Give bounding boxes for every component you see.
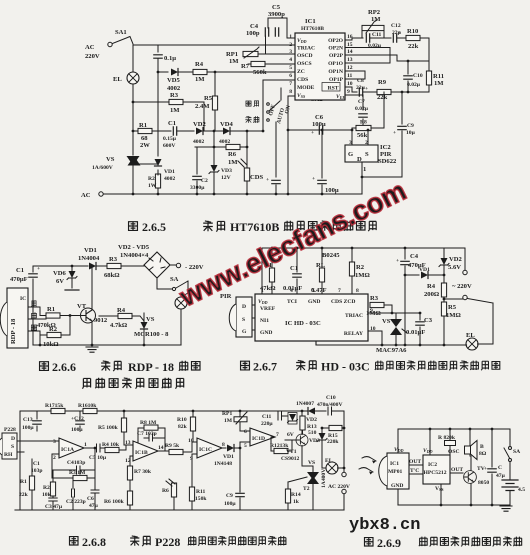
svg-text:8Ω: 8Ω	[479, 451, 487, 457]
wire VEE pin9	[345, 95, 363, 110]
wire pin11 stub	[345, 71, 365, 79]
svg-text:8050: 8050	[478, 480, 489, 486]
wire top rail 248	[262, 248, 465, 294]
svg-text:VD3: VD3	[221, 168, 232, 174]
resistor R5 100k	[98, 410, 133, 445]
svg-text:5: 5	[312, 288, 315, 294]
svg-text:220k: 220k	[327, 439, 339, 445]
svg-text:OSC: OSC	[448, 449, 460, 455]
wire gnd row	[362, 176, 402, 178]
node R5 top	[214, 71, 217, 74]
wire 0.1u cap branch	[157, 45, 159, 52]
wire sensor outputs	[28, 307, 46, 345]
transistor VT1 CS9012	[281, 430, 320, 472]
svg-text:VEE: VEE	[336, 94, 345, 100]
terminal AC 220V	[328, 472, 350, 510]
svg-text:C3: C3	[424, 317, 433, 324]
svg-text:C1: C1	[16, 267, 24, 274]
svg-text:C5: C5	[272, 4, 281, 11]
svg-text:R6: R6	[228, 151, 237, 158]
capacitor C4 103p fb	[52, 454, 95, 474]
lamp EL k	[175, 293, 188, 345]
svg-text:100p: 100p	[246, 30, 260, 37]
svg-text:3: 3	[53, 439, 56, 445]
svg-text:SA: SA	[513, 449, 520, 455]
svg-text:10μ: 10μ	[406, 130, 416, 136]
potentiometer RP2 1M	[362, 9, 384, 38]
pin numbers left	[289, 34, 292, 95]
svg-text:+: +	[365, 86, 368, 92]
capacitor C11 220u	[261, 412, 288, 427]
svg-text:4.5: 4.5	[518, 487, 525, 493]
resistor R3 1M	[366, 295, 393, 317]
svg-text:4002: 4002	[193, 139, 204, 145]
capacitor C9 100u	[224, 448, 244, 510]
svg-text:1N4148: 1N4148	[214, 461, 232, 467]
svg-text:- 220V: - 220V	[185, 264, 204, 271]
resistor R6 100k	[104, 491, 133, 510]
svg-text:8: 8	[356, 288, 359, 294]
svg-text:1: 1	[84, 442, 87, 448]
triac VS 1A/600V	[92, 156, 158, 171]
svg-text:T'C: T'C	[410, 468, 419, 474]
diode VD2 4002	[193, 121, 223, 145]
svg-text:200Ω: 200Ω	[424, 291, 439, 298]
svg-text:+: +	[484, 466, 487, 472]
svg-text:1M: 1M	[229, 58, 239, 65]
AC 220V input terminal	[85, 42, 112, 60]
svg-text:D: D	[357, 156, 362, 163]
caption figure 2.6.7	[241, 360, 500, 374]
capacitor C2	[190, 147, 208, 194]
capacitor C1 0.01uF	[283, 247, 302, 294]
svg-text:C13: C13	[23, 417, 33, 423]
svg-text:4002: 4002	[164, 176, 175, 182]
svg-text:PIR: PIR	[380, 151, 392, 158]
resistor R2	[148, 102, 161, 194]
svg-text:R1: R1	[47, 306, 55, 313]
op-amp IC1C	[188, 438, 226, 486]
svg-text:R4: R4	[195, 61, 204, 68]
wire relay pin10	[368, 331, 382, 345]
svg-text:6V: 6V	[56, 278, 64, 285]
wire R3 row	[133, 101, 169, 103]
svg-text:C12: C12	[391, 23, 401, 29]
wire bottom rail 345	[33, 344, 181, 346]
svg-text:IC2: IC2	[428, 462, 437, 468]
svg-text:OUT: OUT	[409, 459, 421, 465]
op-amp IC1D	[244, 428, 279, 449]
svg-text:7: 7	[338, 288, 341, 294]
svg-text:9: 9	[347, 89, 350, 95]
node VD5	[157, 71, 160, 74]
svg-text:R5: R5	[448, 304, 457, 311]
svg-text:8: 8	[289, 89, 292, 95]
svg-text:~ 220V: ~ 220V	[452, 283, 472, 290]
resistor R14 1k	[285, 477, 307, 510]
op IC1 HT7610B box	[295, 18, 345, 100]
svg-text:+: +	[396, 258, 399, 264]
wire top rail	[133, 44, 295, 46]
node VD3	[213, 146, 216, 149]
svg-text:22k: 22k	[19, 492, 29, 498]
svg-text:R5: R5	[204, 95, 213, 102]
wire IC2 pins up	[352, 130, 368, 145]
resistor R17 15k	[45, 403, 65, 414]
wire EL branch	[132, 45, 134, 72]
svg-text:1: 1	[261, 288, 264, 294]
svg-text:VD2: VD2	[449, 256, 463, 263]
svg-text:TCI: TCI	[287, 299, 297, 305]
svg-text:C9: C9	[407, 123, 414, 129]
svg-text:VD1: VD1	[419, 267, 430, 273]
svg-text:2: 2	[53, 455, 56, 461]
svg-text:560k: 560k	[253, 69, 267, 76]
svg-text:OSCS: OSCS	[297, 61, 312, 67]
svg-text:MCR100 - 8: MCR100 - 8	[134, 331, 169, 338]
zener VD3	[317, 427, 327, 468]
svg-text:2.6.8: 2.6.8	[82, 535, 106, 549]
svg-text:100μ: 100μ	[224, 501, 236, 507]
caption figure 2.6.6 line1	[40, 360, 200, 374]
lamp EL	[325, 458, 345, 474]
svg-text:R4: R4	[427, 283, 436, 290]
svg-text:C4: C4	[410, 253, 419, 260]
resistor R 820k	[438, 428, 460, 455]
svg-text:600V: 600V	[163, 143, 175, 149]
svg-text:OUT: OUT	[451, 467, 463, 473]
svg-text:R5 100k: R5 100k	[98, 425, 119, 431]
svg-text:1k: 1k	[293, 499, 300, 505]
svg-text:IC1A: IC1A	[61, 447, 74, 453]
svg-text:VD1: VD1	[84, 247, 97, 254]
svg-text:0.01μF: 0.01μF	[406, 329, 425, 336]
resistor R1 470k	[37, 306, 80, 329]
svg-text:1A/600V: 1A/600V	[92, 165, 113, 171]
svg-text:RELAY: RELAY	[344, 331, 363, 337]
svg-text:100μ: 100μ	[71, 427, 83, 433]
svg-text:+: +	[312, 176, 315, 182]
svg-text:T2: T2	[303, 486, 310, 492]
capacitor 0.1u	[154, 55, 176, 72]
svg-text:1MΩ: 1MΩ	[446, 312, 461, 319]
svg-text:9012: 9012	[94, 317, 108, 324]
svg-text:2.6.5: 2.6.5	[142, 220, 166, 234]
capacitor C4 470uF	[396, 247, 426, 345]
wire OUT right	[450, 467, 463, 473]
svg-text:R6 100k: R6 100k	[104, 499, 125, 505]
svg-text:IC1: IC1	[390, 461, 399, 467]
svg-text:+: +	[266, 177, 269, 183]
svg-text:1N4007: 1N4007	[296, 401, 314, 407]
svg-text:S: S	[11, 444, 14, 450]
zener VD2	[287, 413, 317, 439]
svg-text:VS: VS	[146, 316, 155, 323]
svg-text:D: D	[242, 304, 246, 310]
zener VD3 12V	[209, 131, 232, 194]
wire left rail	[19, 411, 21, 510]
svg-text:R9 5k: R9 5k	[165, 443, 180, 449]
svg-text:HD - 03C: HD - 03C	[321, 360, 370, 374]
svg-text:C11: C11	[372, 32, 382, 38]
wire pin14 to C10 row	[345, 55, 429, 61]
resistor R6 1M	[226, 144, 247, 166]
resistor R5 2.4M	[195, 72, 218, 131]
resistor R11 150k	[189, 487, 207, 510]
svg-text:R10: R10	[177, 417, 187, 423]
svg-text:14: 14	[347, 49, 353, 55]
wire C6 row	[288, 129, 352, 131]
resistor R4 10k	[102, 442, 133, 453]
svg-text:C1: C1	[290, 265, 298, 272]
svg-text:G: G	[242, 329, 247, 335]
svg-text:0.02μ: 0.02μ	[368, 43, 382, 49]
capacitor C 47u	[484, 428, 506, 505]
IR arrows	[359, 457, 376, 475]
resistor R2 10k	[42, 470, 56, 498]
svg-text:VDD: VDD	[423, 448, 433, 454]
resistor R4 4.7k	[99, 307, 144, 329]
sensor PIR	[220, 293, 255, 337]
resistor R1 22k	[19, 459, 35, 510]
resistor R7 30k	[127, 456, 151, 491]
svg-text:RH: RH	[4, 452, 13, 458]
svg-text:R11: R11	[196, 489, 206, 495]
svg-text:1M: 1M	[434, 80, 444, 87]
svg-text:VSS: VSS	[435, 486, 444, 492]
resistor R2 10k	[40, 314, 71, 348]
svg-text:RP1: RP1	[226, 51, 238, 58]
diode VD1 4002	[155, 159, 176, 182]
capacitor C7 103p	[137, 431, 165, 441]
svg-text:7: 7	[289, 81, 292, 87]
svg-text:OP2O: OP2O	[328, 38, 344, 44]
wire top rail 411	[20, 410, 307, 412]
capacitor C7 0.02u	[355, 99, 369, 125]
svg-text:B: B	[480, 444, 484, 450]
svg-text:2.6.7: 2.6.7	[253, 360, 277, 374]
wire VS to rail	[132, 165, 134, 194]
svg-text:C6: C6	[87, 496, 94, 502]
svg-text:8: 8	[222, 442, 225, 448]
wire bottom rail	[398, 504, 510, 506]
svg-text:1M: 1M	[170, 107, 180, 114]
caption figure 2.6.9	[364, 536, 521, 550]
sensor RDP-18	[0, 288, 28, 348]
svg-text:22k: 22k	[377, 94, 388, 101]
transistor VT 8050	[464, 456, 490, 505]
svg-text:VSS: VSS	[297, 93, 306, 99]
svg-text:1M: 1M	[228, 159, 238, 166]
svg-text:HT7610B: HT7610B	[301, 26, 324, 32]
capacitor C8 22u	[356, 78, 377, 96]
svg-text:R1: R1	[20, 479, 27, 485]
diode VD1 1N4148	[214, 442, 250, 467]
capacitor C5 3900p	[268, 4, 295, 38]
svg-text:4: 4	[289, 57, 292, 63]
svg-text:1MΩ: 1MΩ	[355, 272, 370, 279]
svg-text:VD3: VD3	[309, 438, 320, 444]
svg-text:NI1: NI1	[260, 318, 269, 324]
svg-text:VD2: VD2	[306, 417, 317, 423]
resistor R10 22k	[406, 28, 429, 61]
svg-text:1: 1	[289, 34, 292, 40]
wire VD5 junction down	[157, 72, 159, 102]
svg-text:1W: 1W	[148, 183, 157, 189]
sensor P228	[0, 427, 59, 459]
svg-text:150k: 150k	[195, 496, 207, 502]
svg-text:6: 6	[289, 73, 292, 79]
svg-text:C4103p: C4103p	[67, 460, 85, 466]
svg-text:5: 5	[289, 65, 292, 71]
resistor R3 1M fb	[52, 447, 96, 481]
capacitor C1 470uF	[10, 266, 40, 345]
svg-text:VD6: VD6	[53, 270, 67, 277]
capacitor C6 100u	[311, 114, 326, 136]
capacitor C6 47u	[87, 478, 99, 510]
svg-text:GND: GND	[260, 330, 272, 336]
svg-text:0.02μ: 0.02μ	[407, 82, 421, 88]
svg-text:RDP - 18: RDP - 18	[10, 318, 17, 344]
svg-text:VD2 - VD5: VD2 - VD5	[118, 244, 150, 251]
svg-text:C8: C8	[357, 78, 364, 84]
capacitor C5 10u	[89, 444, 107, 461]
svg-text:1M: 1M	[224, 418, 233, 424]
svg-text:1N4004×4: 1N4004×4	[120, 252, 149, 259]
wire top rail 266	[33, 265, 88, 267]
svg-text:P228: P228	[4, 427, 16, 433]
node R1 tap	[132, 130, 135, 133]
svg-text:R3: R3	[170, 92, 179, 99]
wire pin15 row	[345, 47, 390, 49]
svg-text:C5 10μ: C5 10μ	[89, 455, 107, 461]
svg-text:VDD: VDD	[394, 447, 404, 453]
svg-text:VREF: VREF	[260, 306, 276, 312]
svg-text:C1: C1	[33, 461, 40, 467]
capacitor C12 100u	[71, 411, 84, 433]
svg-text:SD622: SD622	[378, 158, 397, 165]
svg-text:82k: 82k	[178, 424, 188, 430]
resistor R3 1M	[169, 92, 204, 131]
svg-text:VD5: VD5	[167, 77, 181, 84]
resistor R5 1M	[441, 302, 460, 345]
op IC HD-03C box	[255, 288, 376, 341]
svg-text:510: 510	[308, 430, 317, 436]
svg-text:1M: 1M	[195, 76, 205, 83]
svg-text:C: C	[498, 465, 502, 471]
caption figure 2.6.5	[129, 220, 377, 234]
svg-text:C9: C9	[226, 493, 233, 499]
bridge VD2-VD5 1N4004x4	[118, 244, 170, 278]
svg-text:1N4004: 1N4004	[78, 255, 100, 262]
svg-text:OSCD: OSCD	[297, 53, 313, 59]
svg-text:+: +	[37, 266, 40, 272]
svg-text:EL: EL	[113, 76, 122, 83]
wire EL to VS	[132, 84, 134, 155]
svg-text:470μF: 470μF	[10, 276, 28, 283]
svg-text:OP1N: OP1N	[328, 69, 343, 75]
op-amp IC1A	[52, 438, 94, 461]
svg-text:22k: 22k	[408, 43, 419, 50]
node VD2-VD4	[213, 130, 216, 133]
label mode select	[246, 101, 259, 123]
wire SA2 common down	[275, 122, 277, 177]
svg-text:+: +	[393, 130, 396, 136]
AC bottom terminal	[81, 192, 103, 199]
thyristor VS MCR100-8	[134, 313, 169, 345]
wire EL loop	[467, 299, 493, 345]
svg-text:VT1: VT1	[286, 449, 297, 455]
svg-text:56k: 56k	[357, 132, 368, 139]
svg-text:R6: R6	[162, 488, 169, 494]
svg-text:IC1D: IC1D	[252, 436, 265, 442]
svg-text:0.02μ: 0.02μ	[355, 106, 369, 112]
resistor R1 47k	[260, 247, 276, 294]
capacitor C3 0.01uF	[406, 312, 433, 345]
svg-text:VT: VT	[77, 303, 87, 310]
svg-text:RP1: RP1	[222, 411, 232, 417]
resistor R9 5k	[165, 442, 197, 455]
svg-text:VD4: VD4	[220, 121, 234, 128]
svg-text:ybx8.cn: ybx8.cn	[349, 516, 420, 535]
wire pin13 stub	[345, 48, 390, 64]
op IC2 HPC5212	[423, 428, 450, 505]
svg-text:3300μ: 3300μ	[190, 185, 205, 191]
wire pin6 CDS line	[263, 80, 295, 131]
svg-text:OP2P: OP2P	[329, 53, 344, 59]
svg-text:R10: R10	[407, 28, 419, 35]
svg-text:4.7kΩ: 4.7kΩ	[110, 322, 127, 329]
svg-text:RST: RST	[328, 86, 339, 92]
svg-text:OP1P: OP1P	[329, 77, 344, 83]
zener VD2 5.6V	[439, 248, 463, 283]
switch SA	[504, 429, 520, 479]
terminal -220V	[170, 263, 204, 271]
svg-text:220μ: 220μ	[261, 421, 273, 427]
svg-text:P228: P228	[155, 535, 180, 549]
svg-text:7: 7	[276, 432, 279, 438]
resistor R11 1M	[426, 61, 444, 92]
svg-text:RDP - 18: RDP - 18	[128, 360, 174, 374]
svg-text:0.1μ: 0.1μ	[164, 55, 176, 62]
svg-text:13: 13	[347, 57, 353, 63]
svg-text:HPC5212: HPC5212	[424, 470, 447, 476]
svg-text:470n/400V: 470n/400V	[317, 402, 343, 408]
switch SA2 mode	[267, 88, 324, 121]
svg-text:10: 10	[347, 81, 353, 87]
svg-text:OP2N: OP2N	[328, 46, 343, 52]
svg-text:+: +	[398, 30, 401, 36]
capacitor C1 103p	[31, 461, 43, 474]
svg-text:47μ: 47μ	[496, 473, 506, 479]
svg-text:4: 4	[290, 288, 293, 294]
svg-text:+C12: +C12	[71, 416, 84, 422]
svg-text:GND: GND	[308, 299, 320, 305]
svg-text:C11: C11	[262, 414, 272, 420]
ground	[86, 347, 98, 352]
battery 4.5V	[502, 480, 525, 505]
svg-text:ZC: ZC	[297, 69, 305, 75]
switch SA1	[113, 29, 134, 44]
svg-text:11: 11	[347, 73, 352, 79]
svg-text:R3: R3	[109, 256, 118, 263]
wire top rail 429	[398, 428, 510, 430]
diode VD5 4002	[158, 69, 193, 93]
diode VD1 1N4004	[78, 247, 107, 270]
sensor IC1 MP01	[379, 429, 409, 505]
photoresistor CDS	[238, 131, 264, 194]
svg-text:2.6.6: 2.6.6	[52, 360, 76, 374]
